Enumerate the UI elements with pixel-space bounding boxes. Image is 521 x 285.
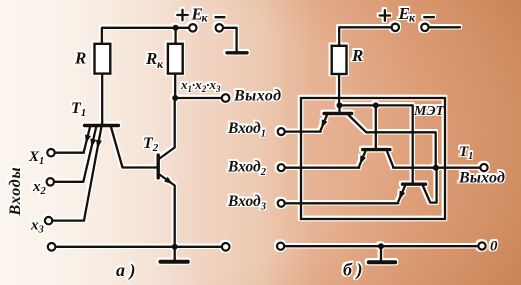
bottom rail circuit b (284, 245, 478, 247)
ground circuit a (160, 247, 187, 262)
label R circuit b (351, 46, 363, 65)
label Vhod1 (227, 120, 266, 140)
wire: output node to output terminal circuit a (175, 97, 222, 99)
terminal + Ek circuit a (189, 24, 196, 31)
T1 emitter 2 with arrow (83, 127, 96, 182)
bottom rail circuit a (55, 246, 222, 248)
Tb2 emitter with arrow (359, 151, 366, 166)
svg-text:к: к (202, 11, 209, 25)
terminal bottom right circuit b (478, 242, 485, 249)
svg-text:Выход: Выход (458, 170, 505, 187)
label T1 circuit a (71, 100, 86, 119)
T2 collector up to output node (160, 98, 175, 159)
node base bus / R junction (337, 102, 343, 108)
resistor Rk circuit a (168, 44, 183, 74)
node output junction circuit a (172, 95, 178, 101)
wire: circuit a top rail from R top to + terminal (102, 28, 189, 44)
label Vyhod circuit a (233, 88, 282, 105)
label b) (343, 260, 362, 281)
label +Ek- circuit a (177, 5, 224, 25)
wire input X2 (54, 181, 83, 183)
svg-text:МЭТ: МЭТ (413, 104, 446, 119)
T1 collector wire to T2 base (111, 127, 157, 168)
label x2 (32, 179, 47, 197)
node base bus / Tb2 feed junction (373, 102, 379, 108)
svg-text:X1: X1 (28, 149, 44, 167)
svg-text:T2: T2 (143, 135, 159, 154)
wire input Vhod3 (285, 202, 399, 204)
label Vhod2 (227, 159, 267, 179)
label T1 circuit b (459, 144, 473, 162)
T1 emitter 1 with arrow (84, 127, 91, 152)
T2 emitter down to rail with arrow (160, 175, 175, 247)
transistor Tb3 base bar (403, 182, 426, 185)
label +Ek- circuit b (380, 4, 434, 25)
terminal bottom left circuit b (277, 243, 284, 250)
svg-text:x1·x2·x3: x1·x2·x3 (180, 77, 221, 94)
input Vhod3 terminal (278, 200, 285, 207)
svg-text:Вход2: Вход2 (227, 159, 267, 179)
wire: + terminal to R top circuit b (339, 27, 391, 46)
wire: Rk top lead (174, 28, 176, 44)
svg-text:T1: T1 (459, 144, 473, 162)
node junction top rail / Rk (173, 25, 179, 31)
Tb1 emitter with arrow (321, 115, 328, 130)
MET box (301, 98, 445, 219)
wire: R bottom to T1 base (101, 74, 103, 125)
transistor Tb2 base bar (363, 148, 390, 151)
label R circuit a (74, 49, 86, 68)
base bus circuit b (340, 105, 413, 183)
wire input Vhod2 (285, 167, 360, 169)
label Vyhod circuit b (458, 170, 505, 187)
node rail junction circuit a (172, 244, 178, 250)
terminal bottom left circuit a (48, 243, 56, 251)
label MET (413, 104, 446, 119)
node rail ground junction circuit b (378, 243, 384, 249)
svg-text:x3: x3 (30, 218, 44, 236)
Tb1 collector and collector bus (349, 115, 436, 168)
transistor T1 base bar (85, 124, 119, 127)
wire input X3 (52, 219, 84, 221)
ground circuit b (369, 246, 395, 262)
input X3 terminal (45, 217, 52, 224)
wire: - terminal to ground circuit a (223, 28, 237, 51)
wire input Vhod1 (285, 130, 321, 132)
label Vhod3 (227, 193, 266, 213)
resistor R circuit b (332, 46, 347, 74)
label 0 (490, 239, 498, 255)
transistor T2 base bar (156, 155, 159, 178)
terminal output circuit b (480, 164, 487, 171)
resistor R circuit a (95, 44, 111, 74)
node collector bus / output junction (433, 165, 439, 171)
Tb3 emitter with arrow (398, 186, 405, 202)
label X1 (28, 149, 44, 167)
Tb3 collector loop up to output (423, 169, 437, 203)
svg-text:к: к (157, 57, 164, 71)
wire input X1 (55, 152, 84, 154)
svg-text:R: R (351, 46, 363, 65)
svg-text:Выход: Выход (233, 88, 282, 105)
wire: R bottom into MET box (338, 74, 340, 105)
svg-text:T1: T1 (71, 100, 86, 119)
terminal output circuit a (222, 94, 230, 102)
label x3 (30, 218, 44, 236)
svg-text:Входы: Входы (7, 167, 24, 217)
label T2 (143, 135, 159, 154)
label Rk circuit a (145, 49, 164, 71)
terminal - Ek circuit a (216, 24, 223, 31)
terminal bottom right circuit a (222, 243, 230, 251)
svg-text:б ): б ) (343, 260, 362, 281)
T1 emitter 3 with arrow (84, 127, 102, 221)
input Vhod1 terminal (278, 128, 285, 135)
wire: Rk bottom to output node (174, 74, 176, 98)
wire: - terminal stub circuit b (429, 26, 460, 28)
wire Tb2 base feed (375, 105, 377, 148)
svg-text:x2: x2 (32, 179, 47, 197)
input X1 terminal (47, 149, 54, 156)
label a) (116, 260, 136, 281)
svg-text:R: R (74, 49, 86, 68)
terminal - Ek circuit b (421, 24, 428, 31)
svg-text:Вход1: Вход1 (227, 120, 266, 140)
transistor Tb1 base bar (324, 112, 352, 115)
ground bar top right circuit a (227, 51, 247, 54)
svg-text:а ): а ) (116, 260, 136, 281)
terminal + Ek circuit b (392, 24, 399, 31)
svg-text:Вход3: Вход3 (227, 193, 266, 213)
input X2 terminal (47, 178, 54, 185)
svg-text:E: E (398, 4, 410, 23)
svg-text:к: к (409, 11, 416, 25)
input Vhod2 terminal (278, 164, 285, 171)
label x1.x2.x3 (180, 77, 221, 94)
wire Tb1 base feed (338, 105, 340, 112)
label Vhody (vertical) (7, 167, 24, 217)
output wire circuit b (393, 167, 480, 169)
svg-text:0: 0 (490, 239, 498, 255)
svg-text:R: R (145, 49, 157, 68)
Tb2 collector (387, 151, 393, 167)
